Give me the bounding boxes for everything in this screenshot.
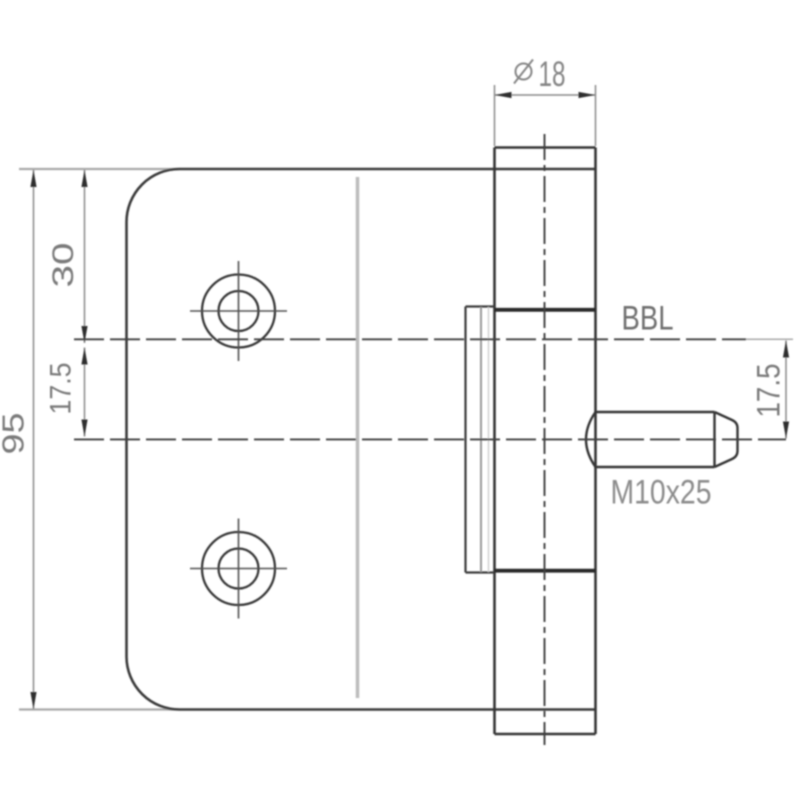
arrow dia18 right bbox=[579, 92, 596, 98]
arrow 17.5 left top bbox=[81, 348, 87, 365]
svg-text:M10x25: M10x25 bbox=[611, 474, 712, 512]
leaf wrap bracket inner grey line bbox=[480, 307, 482, 572]
knuckle sleeve seam top (thick) bbox=[495, 308, 596, 312]
pin M10x25 body bbox=[596, 412, 715, 467]
svg-text:17.5: 17.5 bbox=[751, 364, 787, 418]
arrow 30 top bbox=[81, 170, 87, 187]
screw hole bottom: crosshair bbox=[190, 519, 287, 619]
BBL reference dashed line bbox=[74, 338, 746, 340]
extension line dia18 left bbox=[494, 85, 496, 146]
arrow 95 top bbox=[30, 170, 36, 187]
svg-text:BBL: BBL bbox=[622, 300, 674, 338]
arrow 95 bottom bbox=[30, 692, 36, 709]
leaf wrap bracket faint line bbox=[488, 307, 490, 572]
knuckle sleeve seam bottom (thick) bbox=[495, 569, 596, 573]
knuckle cylinder outline bbox=[495, 148, 596, 735]
screw hole top: crosshair bbox=[190, 261, 287, 361]
label dia symbol bbox=[514, 60, 533, 84]
arrow 17.5 right bottom bbox=[783, 422, 789, 439]
arrow dia18 left bbox=[495, 92, 512, 98]
dimension line 95 bbox=[33, 170, 35, 709]
screw hole bottom: outer circle bbox=[202, 532, 275, 605]
arrow 17.5 left bottom bbox=[81, 420, 87, 437]
extension line bottom (95 dim) bbox=[19, 708, 180, 710]
svg-text:30: 30 bbox=[47, 243, 80, 288]
bend line (light grey vertical) bbox=[356, 177, 360, 698]
BBL extension grey bbox=[746, 338, 793, 340]
arrow 30 bottom bbox=[81, 326, 87, 343]
pin tip taper bbox=[715, 412, 738, 467]
hinge leaf outline bbox=[127, 169, 596, 710]
screw hole top: inner circle bbox=[219, 291, 259, 331]
svg-text:18: 18 bbox=[539, 55, 566, 94]
svg-text:95: 95 bbox=[0, 413, 31, 455]
screw hole bottom: inner circle bbox=[219, 549, 259, 589]
leaf wrap bracket outline bbox=[466, 307, 495, 573]
knuckle centerline dashed bbox=[544, 134, 546, 745]
pin centerline dashed bbox=[74, 438, 786, 440]
screw hole top: outer circle bbox=[202, 275, 275, 348]
arrow 17.5 right top bbox=[783, 341, 789, 358]
dimension line dia 18 bbox=[495, 94, 596, 96]
dimension line 17.5 right bbox=[785, 341, 787, 439]
extension line dia18 right bbox=[595, 85, 597, 146]
dimension line 30 bbox=[84, 170, 86, 343]
dimension line 17.5 left bbox=[84, 348, 86, 437]
extension line top (95 dim) bbox=[19, 168, 180, 170]
pin left cap arc bbox=[586, 412, 596, 467]
svg-text:17.5: 17.5 bbox=[45, 363, 78, 415]
